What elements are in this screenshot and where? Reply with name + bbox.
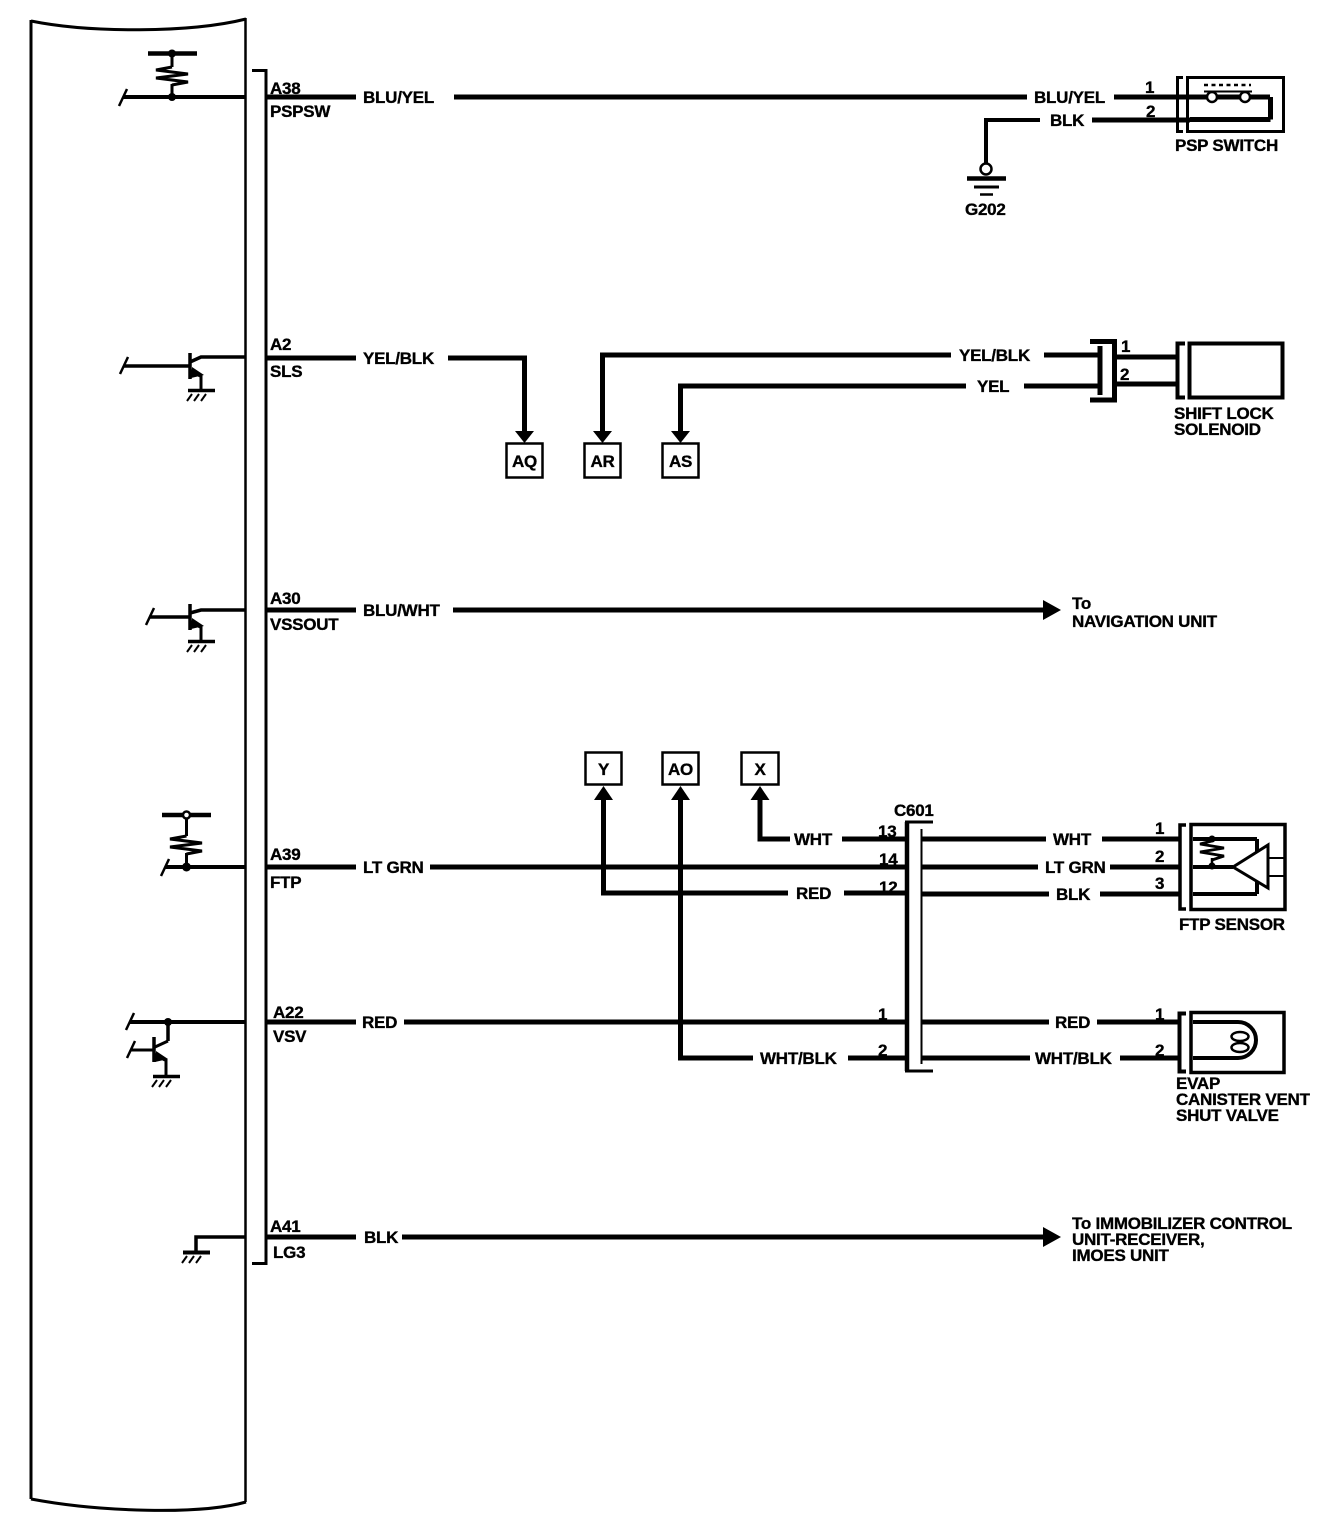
label To NAVIGATION UNIT (1072, 594, 1218, 631)
ground (internal, LG3 row) (182, 1237, 245, 1263)
svg-text:C601: C601 (894, 801, 934, 820)
svg-text:X: X (754, 760, 766, 779)
wire WHT/BLK from C601 to EVAP valve (921, 1056, 1030, 1061)
svg-text:YEL: YEL (977, 377, 1009, 396)
shift lock solenoid bracket (1178, 344, 1186, 398)
transistor (internal, SLS row) (120, 353, 245, 401)
svg-text:A41: A41 (270, 1217, 300, 1236)
svg-text:1: 1 (1145, 78, 1154, 97)
svg-text:BLU/YEL: BLU/YEL (1034, 88, 1105, 107)
arrow into AS (671, 431, 690, 443)
svg-text:A22: A22 (273, 1003, 303, 1022)
wire WHT into FTP sensor (1102, 837, 1180, 842)
FTP sensor bracket (1180, 825, 1186, 909)
PSP switch (1178, 78, 1284, 132)
wire YEL/BLK to shift lock connector (1044, 353, 1098, 358)
svg-text:3: 3 (1155, 874, 1164, 893)
svg-text:A39: A39 (270, 845, 300, 864)
wire PSPSW inside module (119, 89, 245, 106)
wire LT GRN to FTP sensor pin 2 (921, 865, 1038, 870)
arrow into Y (594, 786, 613, 800)
svg-text:BLK: BLK (1050, 111, 1085, 130)
resistor (internal pull-up, PSPSW row) (148, 50, 197, 102)
wire YEL/BLK branch to AR (603, 355, 952, 431)
pin A39 label (270, 845, 301, 892)
wire BLK to FTP sensor pin 3 (921, 892, 1049, 897)
svg-text:12: 12 (879, 878, 897, 897)
wire WHT to X (760, 798, 790, 839)
arrow into AQ (515, 431, 534, 443)
wire BLU/YEL to PSP switch pin 1 (1114, 95, 1190, 100)
connector box X (742, 753, 779, 785)
resistor (internal, FTP row) (162, 812, 211, 872)
wire RED from pin A22 (266, 1020, 356, 1025)
wire BLU/WHT main run (453, 608, 1043, 613)
svg-text:VSV: VSV (273, 1027, 307, 1046)
wire LT GRN to C601 pin 14 (430, 865, 905, 870)
wire WHT/BLK to C601 pin 2 (848, 1056, 905, 1061)
pin A38 label (270, 79, 331, 121)
arrow to immobilizer unit (1043, 1227, 1061, 1247)
connector box AS (663, 444, 699, 478)
svg-text:RED: RED (1055, 1013, 1090, 1032)
arrow to navigation unit (1043, 600, 1061, 620)
svg-text:SLS: SLS (270, 362, 302, 381)
svg-text:IMOES UNIT: IMOES UNIT (1072, 1246, 1170, 1265)
connector C601 (894, 801, 934, 1071)
label SHIFT LOCK SOLENOID (1174, 404, 1274, 439)
svg-text:BLK: BLK (1056, 885, 1091, 904)
svg-text:Y: Y (598, 760, 610, 779)
svg-text:A2: A2 (270, 335, 291, 354)
shift lock solenoid body (1190, 344, 1283, 398)
wire RED to C601 pin 12 (844, 891, 905, 896)
svg-text:SOLENOID: SOLENOID (1174, 420, 1261, 439)
wire RED to Y (604, 798, 789, 893)
svg-text:FTP SENSOR: FTP SENSOR (1179, 915, 1285, 934)
connector box AQ (507, 444, 543, 478)
arrow into AO (671, 786, 690, 800)
svg-text:LT GRN: LT GRN (363, 858, 424, 877)
label To IMMOBILIZER CONTROL UNIT-RECEIVER, IMOES UNIT (1072, 1214, 1292, 1265)
FTP sensor body (1191, 825, 1285, 910)
svg-text:14: 14 (879, 850, 898, 869)
svg-text:AO: AO (668, 760, 693, 779)
svg-text:RED: RED (362, 1013, 397, 1032)
svg-text:1: 1 (878, 1005, 887, 1024)
svg-text:WHT: WHT (794, 830, 833, 849)
svg-text:2: 2 (1155, 1041, 1164, 1060)
svg-text:BLU/YEL: BLU/YEL (363, 88, 434, 107)
svg-text:1: 1 (1155, 819, 1164, 838)
svg-text:LT GRN: LT GRN (1045, 858, 1106, 877)
svg-text:PSPSW: PSPSW (270, 102, 331, 121)
pin A2 label (270, 335, 302, 381)
wire BLU/YEL from pin A38 (266, 95, 356, 100)
svg-text:WHT/BLK: WHT/BLK (760, 1049, 838, 1068)
wire YEL/BLK to AQ (448, 358, 525, 431)
svg-text:AQ: AQ (512, 452, 537, 471)
svg-text:G202: G202 (965, 200, 1006, 219)
svg-text:YEL/BLK: YEL/BLK (363, 349, 435, 368)
wire YEL branch to AS (681, 386, 967, 431)
svg-text:2: 2 (1155, 847, 1164, 866)
svg-text:To: To (1072, 594, 1091, 613)
pin A30 label (270, 589, 339, 634)
svg-text:2: 2 (878, 1041, 887, 1060)
wire BLK main run (402, 1235, 1043, 1240)
wire WHT/BLK into EVAP valve pin 2 (1120, 1056, 1180, 1061)
svg-text:13: 13 (878, 822, 896, 841)
connector box Y (586, 753, 622, 785)
ground G202 (965, 164, 1006, 220)
svg-text:PSP SWITCH: PSP SWITCH (1175, 136, 1278, 155)
wire YEL to shift lock connector (1024, 384, 1098, 389)
pin A41 label (270, 1217, 305, 1262)
svg-text:AS: AS (669, 452, 692, 471)
wire LT GRN from pin A39 (266, 865, 356, 870)
svg-text:BLK: BLK (364, 1228, 399, 1247)
wire to solenoid pin 1 (1117, 355, 1178, 360)
transistor (internal, VSSOUT row) (146, 604, 245, 652)
wire BLK to ground G202 (986, 120, 1040, 163)
svg-text:LG3: LG3 (273, 1243, 305, 1262)
wire BLK from PSP switch pin 2 (1092, 118, 1190, 123)
wire WHT/BLK to AO (681, 798, 754, 1058)
transistor (internal, VSV row) (126, 1013, 245, 1087)
EVAP canister vent shut valve body (1191, 1013, 1284, 1073)
wire BLK from pin A41 (266, 1235, 356, 1240)
arrow into AR (593, 431, 612, 443)
svg-text:RED: RED (796, 884, 831, 903)
wire RED from C601 to EVAP valve (921, 1020, 1049, 1025)
svg-text:1: 1 (1155, 1005, 1164, 1024)
connector box AR (585, 444, 621, 478)
svg-text:A30: A30 (270, 589, 300, 608)
arrow into X (751, 786, 770, 800)
svg-text:FTP: FTP (270, 873, 301, 892)
wire LT GRN into FTP sensor (1110, 865, 1180, 870)
inline connector (shift lock solenoid) (1090, 342, 1115, 401)
pin A22 label (273, 1003, 307, 1046)
wire BLK into FTP sensor (1100, 892, 1180, 897)
wire FTP inside module (161, 859, 245, 876)
connector box AO (663, 753, 699, 785)
wire WHT to FTP sensor pin 1 (921, 837, 1046, 842)
svg-text:YEL/BLK: YEL/BLK (959, 346, 1031, 365)
wire RED into EVAP valve pin 1 (1097, 1020, 1180, 1025)
EVAP valve bracket (1180, 1014, 1187, 1072)
svg-text:AR: AR (590, 452, 614, 471)
connector bracket (module pin rail) (252, 71, 266, 1264)
wire RED to C601 pin 1 (404, 1020, 905, 1025)
control module outline (torn band) (31, 18, 246, 1510)
svg-text:2: 2 (1120, 365, 1129, 384)
svg-text:NAVIGATION UNIT: NAVIGATION UNIT (1072, 612, 1218, 631)
wire WHT to C601 pin 13 (842, 837, 905, 842)
wire YEL/BLK from pin A2 (266, 356, 356, 361)
wire to solenoid pin 2 (1117, 382, 1178, 387)
svg-text:VSSOUT: VSSOUT (270, 615, 339, 634)
svg-text:1: 1 (1121, 337, 1130, 356)
label EVAP CANISTER VENT SHUT VALVE (1176, 1074, 1311, 1125)
wire BLU/WHT from pin A30 (266, 608, 356, 613)
svg-text:WHT/BLK: WHT/BLK (1035, 1049, 1113, 1068)
wire BLU/YEL main run (454, 95, 1027, 100)
svg-text:WHT: WHT (1053, 830, 1092, 849)
svg-text:BLU/WHT: BLU/WHT (363, 601, 440, 620)
svg-text:SHUT VALVE: SHUT VALVE (1176, 1106, 1279, 1125)
